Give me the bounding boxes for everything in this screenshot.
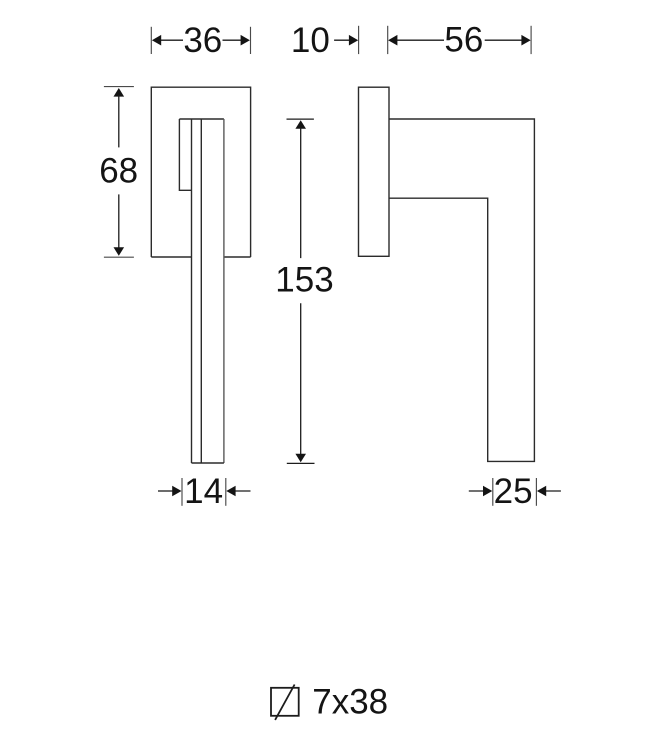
svg-text:68: 68 (99, 151, 138, 190)
dim 56 arrow left (388, 35, 397, 46)
dim 14 arrow left (172, 486, 181, 497)
dim 36 shaft right (223, 39, 245, 41)
svg-text:7x38: 7x38 (312, 683, 388, 722)
svg-text:56: 56 (444, 21, 483, 60)
dim 25 shaft left (469, 490, 485, 492)
dim 10 tick right shared with dim 56 (387, 26, 389, 54)
spindle square symbol (271, 688, 299, 716)
dim 36 shaft left (158, 39, 183, 41)
dim 68 extension bar bottom (104, 256, 134, 258)
dim 36 arrow left (152, 35, 161, 46)
dim 153 shaft upper (300, 128, 302, 259)
dim 14 tick right (225, 478, 227, 506)
dim 68 arrow up (114, 88, 125, 97)
svg-text:153: 153 (275, 261, 333, 300)
dim 25 shaft right (544, 490, 561, 492)
dim 10 arrow (349, 35, 358, 46)
svg-text:14: 14 (184, 472, 223, 511)
svg-text:36: 36 (183, 21, 222, 60)
front view spindle housing (179, 119, 191, 190)
front view handle neck top edge (179, 118, 224, 120)
dim 14 shaft right (234, 490, 251, 492)
front view grip inner edge (200, 119, 202, 463)
dim 10 arrow shaft (334, 39, 351, 41)
front view grip right edge (223, 119, 225, 463)
dim 56 shaft right (485, 39, 523, 41)
dim 56 tick right (530, 26, 532, 54)
dim 14 arrow right (226, 486, 235, 497)
front view rosette plate (151, 87, 250, 258)
dim 36 tick left (150, 27, 152, 54)
dim 68 arrow down (114, 247, 125, 256)
dim 25 arrow right (537, 486, 546, 497)
dim 153 arrow down (295, 454, 306, 463)
dim 25 arrow left (483, 486, 492, 497)
dim 56 arrow right (521, 35, 530, 46)
front view grip bottom edge (192, 462, 224, 464)
dim 153 extension bar top (287, 118, 314, 120)
svg-text:25: 25 (494, 472, 533, 511)
front view grip left edge (191, 119, 193, 463)
spindle square diagonal (275, 685, 295, 720)
dim 68 extension bar top (104, 86, 134, 88)
dim 153 end bar (287, 462, 315, 464)
dim 68 shaft lower (118, 194, 120, 249)
dim 153 arrow up (295, 120, 306, 129)
dim 36 arrow right (241, 35, 250, 46)
dim 14 tick left (181, 478, 183, 506)
dim 14 shaft left (158, 490, 174, 492)
dim 68 shaft upper (118, 95, 120, 147)
dim 25 tick left (492, 478, 494, 506)
dim 36 tick right (250, 27, 252, 54)
side view handle profile (389, 119, 534, 461)
dim 153 shaft lower (300, 303, 302, 455)
dim 56 shaft left (397, 39, 445, 41)
svg-text:10: 10 (291, 21, 330, 60)
dim 25 tick right (535, 478, 537, 506)
side view rosette bar (359, 87, 390, 256)
dim 10 tick left (358, 26, 360, 54)
